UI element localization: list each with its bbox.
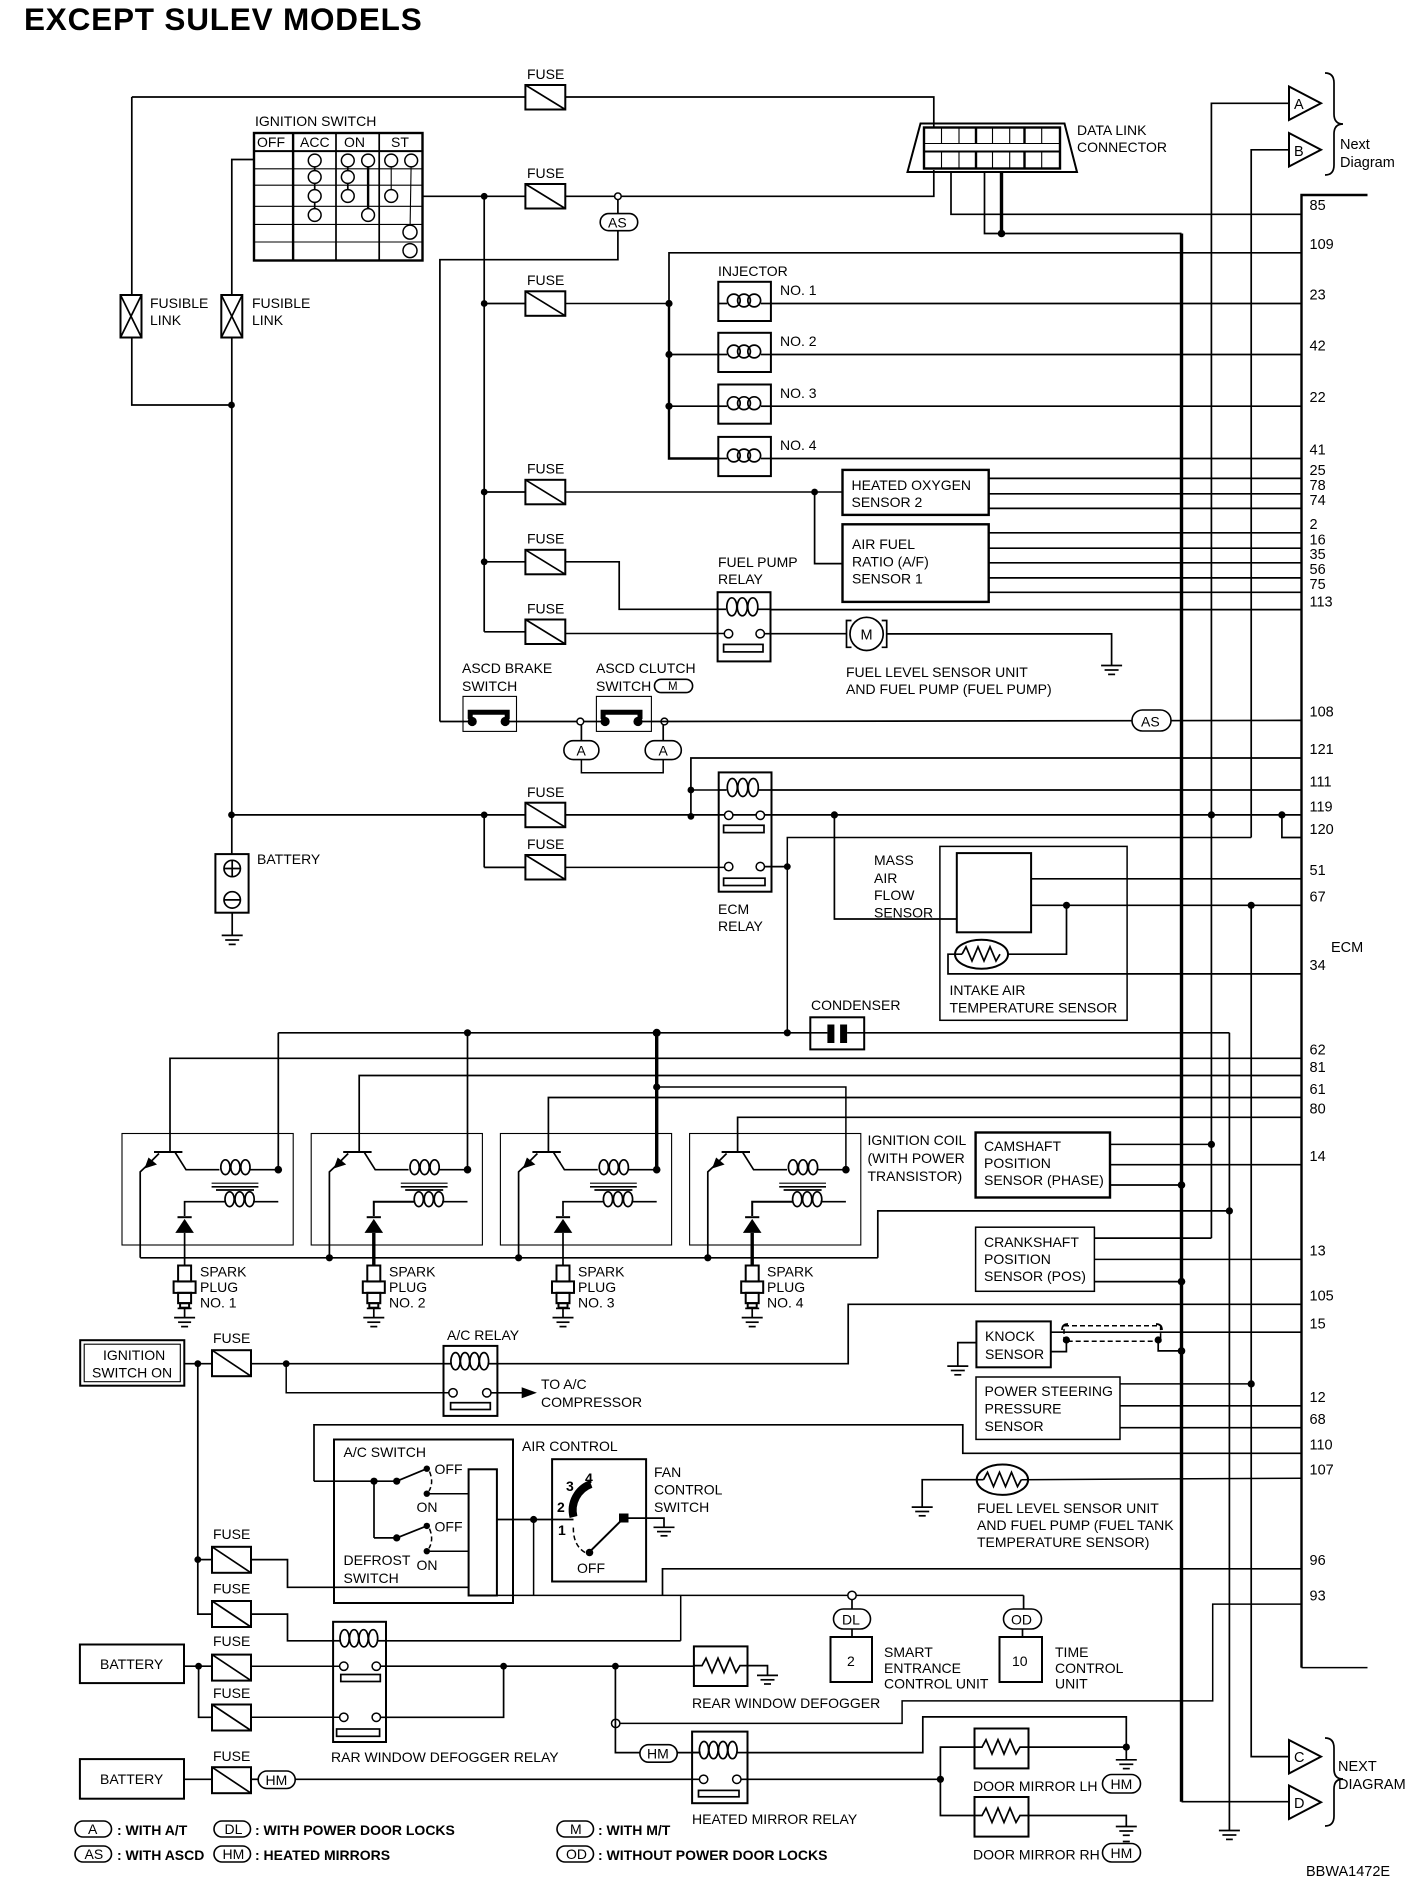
svg-text:SPARK: SPARK — [767, 1264, 814, 1280]
svg-text:SENSOR (POS): SENSOR (POS) — [984, 1268, 1086, 1284]
shield drain right to D line — [1155, 1336, 1162, 1343]
next diagram arrow A — [1289, 87, 1321, 121]
svg-text:NO. 4: NO. 4 — [780, 437, 817, 453]
svg-text:FUSE: FUSE — [213, 1633, 250, 1649]
wire: feed into brake switch — [440, 721, 464, 723]
svg-text:SENSOR 2: SENSOR 2 — [852, 494, 923, 510]
fusible link FL1 — [121, 295, 142, 338]
svg-text:ECM: ECM — [718, 901, 749, 917]
connector M (with M/T) — [655, 679, 693, 692]
svg-text:68: 68 — [1310, 1412, 1326, 1428]
ground under battery — [231, 913, 233, 936]
svg-text:80: 80 — [1310, 1102, 1326, 1118]
legend connector AS — [75, 1846, 112, 1862]
wire: PS sensor to sensor-ground line — [1120, 1383, 1251, 1385]
coil2 right feed — [467, 1033, 469, 1170]
coil3 right feed (thick) — [655, 1033, 658, 1170]
battery B1 — [215, 854, 248, 913]
ground (knock sensor) — [947, 1365, 968, 1367]
camshaft position sensor box — [976, 1133, 1110, 1198]
injector no.4 — [718, 437, 771, 476]
intake air temperature sensor — [955, 940, 1008, 969]
next diagram arrow B — [1289, 133, 1321, 167]
svg-text:RELAY: RELAY — [718, 571, 764, 587]
wire: AF to ECM 56 — [989, 577, 1302, 579]
wire: HO2S to ECM 25 — [989, 477, 1302, 479]
svg-text:: HEATED MIRRORS: : HEATED MIRRORS — [255, 1847, 390, 1863]
svg-text:ECM: ECM — [1331, 940, 1363, 956]
svg-text:SENSOR: SENSOR — [985, 1346, 1044, 1362]
svg-text:: WITHOUT POWER DOOR LOCKS: : WITHOUT POWER DOOR LOCKS — [598, 1847, 827, 1863]
svg-text:: WITH M/T: : WITH M/T — [598, 1822, 671, 1838]
svg-text:AND FUEL PUMP (FUEL PUMP): AND FUEL PUMP (FUEL PUMP) — [846, 681, 1052, 697]
svg-text:TEMPERATURE SENSOR): TEMPERATURE SENSOR) — [977, 1534, 1149, 1550]
svg-text:M: M — [861, 628, 873, 644]
svg-text:SENSOR: SENSOR — [874, 905, 933, 921]
ignition coil block 3 — [500, 1134, 671, 1258]
wire: injector3 to ECM 22 — [771, 405, 1302, 407]
wire: brake sw to clutch sw — [517, 721, 597, 723]
branch to coil4 feed — [653, 1083, 660, 1090]
air fuel ratio sensor 1 box — [843, 524, 989, 602]
wire to A — [1211, 103, 1289, 1238]
svg-text:34: 34 — [1310, 958, 1326, 974]
svg-text:AIR: AIR — [874, 870, 897, 886]
svg-text:25: 25 — [1310, 463, 1326, 479]
svg-text:FUSE: FUSE — [527, 601, 564, 617]
svg-text:FUSE: FUSE — [527, 784, 564, 800]
wire: fuse F1 to DLC drop — [565, 97, 934, 128]
wire: crankshaft bottom to D line — [1094, 1281, 1181, 1283]
svg-text:SWITCH: SWITCH — [654, 1499, 709, 1515]
A/C selector bar — [469, 1469, 497, 1595]
svg-text:FUSIBLE: FUSIBLE — [252, 295, 310, 311]
A/C switch contacts — [314, 1480, 397, 1482]
svg-text:(WITH POWER: (WITH POWER — [868, 1150, 965, 1166]
wire: injector bus to ECM 109 — [669, 253, 1302, 304]
spark plug no.3 — [552, 1266, 574, 1327]
wire: D line (thick) to arrow D — [1180, 234, 1183, 1802]
svg-text:23: 23 — [1310, 288, 1326, 304]
junction dots on 119 line — [831, 811, 838, 818]
svg-text:111: 111 — [1310, 775, 1332, 791]
svg-text:A: A — [88, 1821, 98, 1837]
svg-text:A/C SWITCH: A/C SWITCH — [344, 1444, 426, 1460]
svg-text:OFF: OFF — [435, 1461, 463, 1477]
svg-text:ENTRANCE: ENTRANCE — [884, 1660, 961, 1676]
svg-text:HEATED MIRROR RELAY: HEATED MIRROR RELAY — [692, 1811, 858, 1827]
door mirror LH — [975, 1729, 1029, 1769]
wire: crankshaft to ECM 13 — [1094, 1258, 1301, 1260]
wire: ECM 93 net — [620, 1604, 1302, 1723]
connector A (right) — [662, 725, 664, 741]
svg-text:INTAKE AIR: INTAKE AIR — [950, 982, 1026, 998]
wire: coil stub — [691, 789, 720, 791]
svg-text:A: A — [577, 743, 587, 759]
wire: clutch sw to ECM 108 — [651, 720, 1301, 721]
wire: A/C relay coil to ECM 105 — [497, 1304, 1301, 1363]
spark plug no.1 — [174, 1266, 196, 1327]
svg-text:CAMSHAFT: CAMSHAFT — [984, 1138, 1061, 1154]
wire: A/C switch feed to ECM 110 — [314, 1425, 1302, 1481]
legend connector DL — [214, 1821, 251, 1837]
svg-text:35: 35 — [1310, 547, 1326, 563]
door mirror RH — [975, 1797, 1029, 1837]
coil emitter common line — [140, 1257, 878, 1259]
svg-text:RAR WINDOW DEFOGGER RELAY: RAR WINDOW DEFOGGER RELAY — [331, 1749, 559, 1765]
power steering pressure sensor box — [976, 1377, 1120, 1439]
svg-text:Next: Next — [1340, 137, 1370, 153]
wire: ECM 81 to coil2 — [359, 1076, 1301, 1153]
knock sensor box — [976, 1321, 1050, 1367]
svg-text:FUEL PUMP: FUEL PUMP — [718, 554, 798, 570]
ignition switch on box — [80, 1340, 184, 1386]
svg-text:DL: DL — [225, 1821, 243, 1837]
wire: top feed from fusible link 1 to fuse (y=97) — [132, 96, 526, 98]
ground (fuel tank sensor) — [912, 1506, 933, 1508]
legend connector OD — [557, 1846, 594, 1862]
svg-text:HM: HM — [266, 1772, 288, 1788]
svg-text:D: D — [1294, 1796, 1304, 1812]
svg-text:AIR FUEL: AIR FUEL — [852, 536, 915, 552]
svg-text:CONDENSER: CONDENSER — [811, 997, 900, 1013]
mass air flow sensor outer box — [940, 846, 1127, 1020]
svg-text:41: 41 — [1310, 443, 1326, 459]
O2 feed junction — [811, 489, 818, 496]
connector HM (battery feed) — [258, 1771, 295, 1789]
svg-text:POSITION: POSITION — [984, 1155, 1051, 1171]
connector circle to smart entrance — [848, 1591, 856, 1599]
svg-text:AS: AS — [1141, 714, 1160, 730]
svg-text:TEMPERATURE SENSOR: TEMPERATURE SENSOR — [950, 1000, 1118, 1016]
svg-text:SWITCH: SWITCH — [462, 678, 517, 694]
svg-text:121: 121 — [1310, 742, 1334, 758]
svg-text:DATA LINK: DATA LINK — [1077, 122, 1147, 138]
svg-text:SWITCH: SWITCH — [596, 678, 651, 694]
96 net dotted row — [497, 1594, 1024, 1596]
heated mirror relay — [692, 1732, 747, 1804]
connector circle after F2 — [615, 193, 622, 200]
brace next diagram bottom — [1325, 1738, 1343, 1826]
svg-text:81: 81 — [1310, 1060, 1326, 1076]
wire: FL2 bottom down to battery — [231, 338, 233, 855]
svg-text:AS: AS — [85, 1846, 104, 1862]
svg-text:FUSE: FUSE — [213, 1748, 250, 1764]
legend connector A — [75, 1821, 112, 1837]
wire: FP relay coil to ECM 113 — [771, 609, 1302, 611]
wire: sensor to ground — [922, 1480, 983, 1507]
svg-text:22: 22 — [1310, 390, 1326, 406]
connector AS — [600, 214, 638, 231]
wire: A/C relay output arrow — [491, 1392, 523, 1394]
svg-text:78: 78 — [1310, 478, 1326, 494]
wire: fuse F2 to DLC bottom drop — [565, 170, 934, 196]
svg-text:FUEL LEVEL SENSOR UNIT: FUEL LEVEL SENSOR UNIT — [977, 1500, 1159, 1516]
svg-text:61: 61 — [1310, 1082, 1326, 1098]
svg-text:56: 56 — [1310, 562, 1326, 578]
svg-text:PLUG: PLUG — [578, 1279, 616, 1295]
svg-text:LINK: LINK — [252, 312, 284, 328]
svg-text:ACC: ACC — [300, 134, 330, 150]
wire: emitter line riser to condenser bus — [878, 1211, 1230, 1258]
connector circle (93 net) — [612, 1719, 620, 1727]
next diagram arrow D — [1289, 1786, 1321, 1820]
svg-text:119: 119 — [1310, 800, 1333, 816]
svg-text:RELAY: RELAY — [718, 918, 764, 934]
wire: fuse to A/C bar — [251, 1560, 469, 1588]
svg-text:LINK: LINK — [150, 312, 182, 328]
svg-text:67: 67 — [1310, 890, 1326, 906]
spark plug no.4 stem (thick) — [751, 1233, 754, 1266]
svg-text:HEATED OXYGEN: HEATED OXYGEN — [852, 477, 972, 493]
svg-text:109: 109 — [1310, 237, 1334, 253]
wire: DLC pin to 109 bus corner — [985, 172, 1182, 234]
svg-text:SENSOR 1: SENSOR 1 — [852, 571, 923, 587]
injector no.2 — [718, 333, 771, 372]
crankshaft position sensor box — [976, 1227, 1095, 1291]
wire: AF to ECM 35 — [989, 562, 1302, 564]
svg-text:FUSE: FUSE — [527, 165, 564, 181]
wire: table row3 to fuse F2 — [423, 195, 526, 197]
svg-text:: WITH A/T: : WITH A/T — [117, 1822, 188, 1838]
main ignition feed bus x=484 — [483, 196, 485, 632]
wire: OD drop — [1023, 1595, 1025, 1609]
svg-text:OFF: OFF — [257, 134, 285, 150]
wire to B — [1251, 150, 1289, 838]
defrost switch contacts — [373, 1481, 375, 1538]
wire: camshaft top to A line — [1110, 1143, 1211, 1145]
svg-text:: WITH POWER DOOR LOCKS: : WITH POWER DOOR LOCKS — [255, 1822, 455, 1838]
wire: injector4 to ECM 41 — [771, 458, 1302, 460]
wire: defogger to ground — [748, 1666, 768, 1676]
svg-text:DOOR MIRROR LH: DOOR MIRROR LH — [973, 1778, 1097, 1794]
injector no.3 — [718, 385, 771, 424]
svg-text:NO. 1: NO. 1 — [200, 1295, 237, 1311]
wire: camshaft to ECM 14 — [1110, 1164, 1302, 1166]
svg-text:FUSE: FUSE — [527, 272, 564, 288]
svg-text:SPARK: SPARK — [200, 1264, 247, 1280]
wire: ECM 62 to coil1 — [170, 1058, 1302, 1152]
svg-text:FUSE: FUSE — [527, 836, 564, 852]
wire: table row1 to left bus — [232, 160, 254, 296]
svg-text:FUSE: FUSE — [213, 1330, 250, 1346]
svg-text:ASCD BRAKE: ASCD BRAKE — [462, 660, 552, 676]
fuel tank temperature sensor — [977, 1465, 1028, 1495]
wire: HM mirror relay coil feed — [615, 1666, 640, 1752]
svg-text:SPARK: SPARK — [389, 1264, 436, 1280]
legend connector HM — [214, 1846, 251, 1862]
svg-text:DL: DL — [842, 1612, 860, 1628]
wire: IAT to ECM 34 — [948, 954, 1302, 974]
svg-text:HM: HM — [1111, 1845, 1133, 1861]
svg-text:FUSE: FUSE — [527, 531, 564, 547]
svg-text:FUEL LEVEL SENSOR UNIT: FUEL LEVEL SENSOR UNIT — [846, 664, 1028, 680]
connector AS on 108 line — [1132, 710, 1171, 731]
wire: FL1 down and over to FL2 bus — [131, 97, 133, 295]
spark plug no.1 stem — [184, 1233, 186, 1266]
svg-text:12: 12 — [1310, 1390, 1326, 1406]
svg-text:M: M — [570, 1821, 582, 1837]
svg-text:IGNITION SWITCH: IGNITION SWITCH — [255, 113, 376, 129]
wire: knock sensor to ground — [958, 1343, 977, 1367]
svg-text:OFF: OFF — [577, 1560, 605, 1576]
wire: crankshaft top to A line corner — [1094, 1237, 1211, 1239]
svg-text:SPARK: SPARK — [578, 1264, 625, 1280]
wire: branch down to A/F sensor — [815, 492, 843, 564]
ground (fuel pump) — [1101, 665, 1122, 667]
wire: bus to injector3 — [669, 405, 718, 407]
svg-text:BBWA1472E: BBWA1472E — [1306, 1864, 1390, 1880]
svg-text:REAR WINDOW DEFOGGER: REAR WINDOW DEFOGGER — [692, 1695, 880, 1711]
wire: bus to injector2 — [669, 354, 718, 356]
spark plug no.2 stem (thick) — [372, 1233, 375, 1266]
spark plug no.2 — [363, 1266, 385, 1327]
svg-text:TIME: TIME — [1055, 1644, 1088, 1660]
svg-text:85: 85 — [1310, 198, 1326, 214]
wire: B line to ignition coil feed (y=837) — [787, 838, 1251, 1033]
IGN bus to lower fuses — [198, 1364, 212, 1614]
ground (fan switch) — [654, 1526, 675, 1528]
svg-text:FAN: FAN — [654, 1464, 681, 1480]
wire: heated mirror relay coil to ground net — [748, 1717, 1127, 1753]
wire: AF to ECM 75 — [989, 591, 1302, 593]
svg-text:FUSE: FUSE — [527, 461, 564, 477]
svg-text:AND FUEL PUMP (FUEL TANK: AND FUEL PUMP (FUEL TANK — [977, 1517, 1174, 1533]
connector A (left) — [580, 725, 582, 741]
ignition coil block 2 — [311, 1134, 482, 1258]
svg-text:B: B — [1294, 144, 1304, 160]
svg-text:ST: ST — [391, 134, 409, 150]
svg-text:CONNECTOR: CONNECTOR — [1077, 139, 1167, 155]
svg-text:POSITION: POSITION — [984, 1251, 1051, 1267]
svg-text:PLUG: PLUG — [200, 1279, 238, 1295]
connector circle — [577, 718, 584, 725]
svg-text:DEFROST: DEFROST — [344, 1552, 411, 1568]
svg-text:OD: OD — [1011, 1612, 1032, 1628]
wire: fuse to A/C relay coil — [251, 1363, 444, 1365]
svg-text:COMPRESSOR: COMPRESSOR — [541, 1394, 642, 1410]
legend connector M — [557, 1821, 594, 1837]
svg-text:EXCEPT SULEV MODELS: EXCEPT SULEV MODELS — [24, 1, 423, 37]
connector HM (LH) — [1103, 1775, 1141, 1794]
ignition coil block 1 — [122, 1134, 293, 1258]
svg-text:75: 75 — [1310, 577, 1326, 593]
battery B3 — [80, 1759, 184, 1799]
wire: AF to ECM 16 — [989, 547, 1302, 549]
svg-text:ON: ON — [417, 1499, 438, 1515]
wire: fuse to defogger relay coil — [251, 1614, 333, 1641]
svg-text:AIR CONTROL: AIR CONTROL — [522, 1438, 618, 1454]
svg-text:AS: AS — [608, 215, 627, 231]
svg-text:UNIT: UNIT — [1055, 1676, 1088, 1692]
fusible link FL2 — [221, 295, 242, 338]
svg-text:ASCD CLUTCH: ASCD CLUTCH — [596, 660, 696, 676]
wire: ECM 80 to coil4 — [738, 1117, 1302, 1152]
svg-text:M: M — [668, 681, 678, 693]
wire: ECM 61 to coil3 — [548, 1098, 1301, 1153]
svg-text:INJECTOR: INJECTOR — [718, 263, 788, 279]
svg-text:NEXT: NEXT — [1338, 1759, 1377, 1775]
wire: to door mirror RH — [940, 1779, 974, 1815]
spark plug no.4 — [741, 1266, 763, 1327]
wire: ECM 121 riser — [691, 758, 1302, 816]
svg-text:NO. 3: NO. 3 — [780, 385, 817, 401]
wire: AF to ECM 2 — [989, 532, 1302, 534]
coil1 right feed — [277, 1033, 279, 1170]
wire: FP relay contact to motor — [764, 633, 846, 635]
wire: PS sensor to ECM 12 — [1120, 1405, 1302, 1407]
heated oxygen sensor 2 box — [843, 470, 989, 515]
svg-text:15: 15 — [1310, 1317, 1326, 1333]
wire: defogger relay outputs — [381, 1665, 694, 1667]
svg-text:FUSE: FUSE — [213, 1581, 250, 1597]
wire: branch to A/C relay contact — [286, 1364, 449, 1393]
wire: ECM 120 elbow — [1282, 815, 1302, 838]
wire: defogger relay coil to 96 net — [386, 1640, 681, 1642]
svg-text:FUSIBLE: FUSIBLE — [150, 295, 208, 311]
svg-text:KNOCK: KNOCK — [985, 1328, 1035, 1344]
AS branch wire down-left to ASCD feed — [440, 200, 618, 722]
ignition switch table — [254, 133, 423, 261]
svg-text:A/C RELAY: A/C RELAY — [447, 1327, 520, 1343]
svg-text:TO A/C: TO A/C — [541, 1376, 587, 1392]
svg-text:NO. 3: NO. 3 — [578, 1295, 615, 1311]
svg-text:CONTROL: CONTROL — [654, 1482, 723, 1498]
svg-text:ON: ON — [344, 134, 365, 150]
wire: HM to heated mirror relay — [295, 1778, 699, 1780]
svg-text:105: 105 — [1310, 1289, 1334, 1305]
ECM connector line — [1302, 195, 1368, 1668]
svg-text:FUSE: FUSE — [527, 66, 564, 82]
svg-text:FUSE: FUSE — [213, 1526, 250, 1542]
battery feed row y=815 — [232, 814, 526, 816]
svg-text:SWITCH: SWITCH — [344, 1570, 399, 1586]
svg-text:NO. 2: NO. 2 — [389, 1295, 426, 1311]
connector circle — [661, 718, 668, 725]
svg-text:POWER STEERING: POWER STEERING — [985, 1383, 1113, 1399]
svg-text:113: 113 — [1310, 595, 1333, 611]
ignition coil block 4 — [690, 1134, 861, 1258]
time control unit — [1000, 1637, 1043, 1682]
ground (RH mirror) — [1116, 1826, 1137, 1828]
svg-text:TRANSISTOR): TRANSISTOR) — [868, 1168, 963, 1184]
connector DL — [834, 1609, 871, 1629]
svg-text:PLUG: PLUG — [767, 1279, 805, 1295]
ground (condenser bus) — [1219, 1830, 1240, 1832]
svg-text:PRESSURE: PRESSURE — [985, 1401, 1062, 1417]
wire: fan arm to 96 net — [533, 1520, 535, 1596]
svg-text:62: 62 — [1310, 1043, 1326, 1059]
svg-text:108: 108 — [1310, 705, 1334, 721]
svg-text:CONTROL: CONTROL — [1055, 1660, 1124, 1676]
wire: DLC diagnostic pin (thick) — [1000, 172, 1003, 234]
data link connector — [908, 124, 1078, 173]
injector no.1 — [718, 282, 771, 321]
wire: MAF power drop — [834, 815, 956, 919]
wire: heated mirror relay output — [741, 1778, 940, 1780]
wire: injector1 to ECM 23 — [771, 303, 1302, 305]
svg-text:SENSOR: SENSOR — [985, 1418, 1044, 1434]
ground (LH mirror) — [1116, 1759, 1137, 1761]
svg-text:C: C — [1294, 1750, 1304, 1766]
svg-text:SENSOR (PHASE): SENSOR (PHASE) — [984, 1172, 1104, 1188]
svg-text:HM: HM — [647, 1746, 669, 1762]
svg-text:PLUG: PLUG — [389, 1279, 427, 1295]
A/C switch outer box — [334, 1440, 513, 1604]
connector HM (RH) — [1103, 1844, 1141, 1863]
wire: defogger relay coil control drop — [680, 1595, 682, 1640]
svg-text:: WITH ASCD: : WITH ASCD — [117, 1847, 204, 1863]
